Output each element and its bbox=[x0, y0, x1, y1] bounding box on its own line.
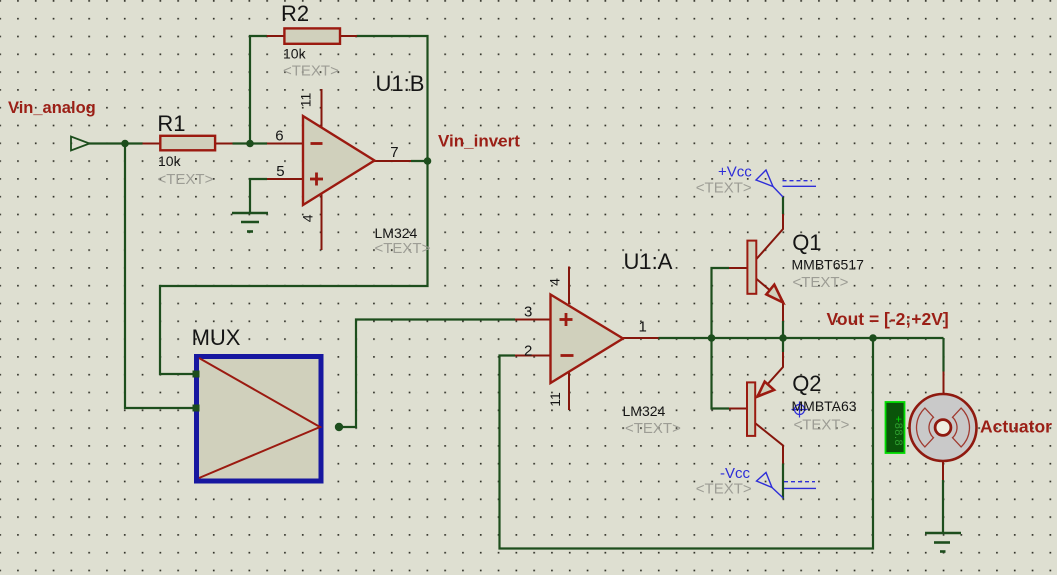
svg-text:MUX: MUX bbox=[192, 325, 241, 350]
svg-text:<TEXT>: <TEXT> bbox=[625, 420, 681, 437]
svg-text:MMBT6517: MMBT6517 bbox=[792, 257, 865, 273]
svg-text:<TEXT>: <TEXT> bbox=[793, 274, 849, 291]
svg-text:1: 1 bbox=[639, 319, 647, 336]
svg-text:4: 4 bbox=[299, 214, 315, 222]
svg-text:<TEXT>: <TEXT> bbox=[283, 63, 339, 80]
svg-text:R1: R1 bbox=[157, 111, 185, 136]
svg-text:MMBTA63: MMBTA63 bbox=[792, 398, 857, 414]
svg-text:11: 11 bbox=[547, 392, 563, 407]
svg-text:5: 5 bbox=[276, 163, 284, 180]
svg-text:Vout = [-2;+2V]: Vout = [-2;+2V] bbox=[827, 309, 949, 329]
svg-text:+88.8: +88.8 bbox=[892, 416, 904, 446]
svg-text:10k: 10k bbox=[158, 153, 182, 169]
svg-text:-Vcc: -Vcc bbox=[720, 465, 751, 482]
svg-text:U1:A: U1:A bbox=[624, 249, 673, 274]
svg-text:Q2: Q2 bbox=[792, 371, 821, 396]
svg-text:<TEXT>: <TEXT> bbox=[158, 171, 214, 188]
svg-text:6: 6 bbox=[275, 128, 283, 145]
svg-text:<TEXT>: <TEXT> bbox=[696, 180, 752, 197]
svg-text:2: 2 bbox=[524, 343, 532, 360]
svg-text:Vin_invert: Vin_invert bbox=[438, 132, 520, 151]
svg-text:3: 3 bbox=[524, 304, 532, 321]
svg-text:Actuator: Actuator bbox=[980, 417, 1052, 437]
svg-text:10k: 10k bbox=[283, 46, 307, 62]
svg-text:4: 4 bbox=[547, 278, 563, 286]
svg-text:+Vcc: +Vcc bbox=[718, 164, 752, 181]
svg-text:<TEXT>: <TEXT> bbox=[375, 240, 431, 257]
svg-text:11: 11 bbox=[298, 93, 314, 108]
svg-text:Vin_analog: Vin_analog bbox=[8, 99, 96, 117]
svg-text:<TEXT>: <TEXT> bbox=[794, 417, 850, 434]
svg-text:7: 7 bbox=[390, 144, 398, 161]
svg-text:<TEXT>: <TEXT> bbox=[696, 481, 752, 498]
svg-text:U1:B: U1:B bbox=[376, 71, 425, 96]
svg-text:R2: R2 bbox=[281, 1, 309, 26]
svg-text:LM324: LM324 bbox=[623, 403, 666, 419]
svg-text:LM324: LM324 bbox=[375, 225, 418, 241]
svg-text:Q1: Q1 bbox=[792, 230, 821, 255]
